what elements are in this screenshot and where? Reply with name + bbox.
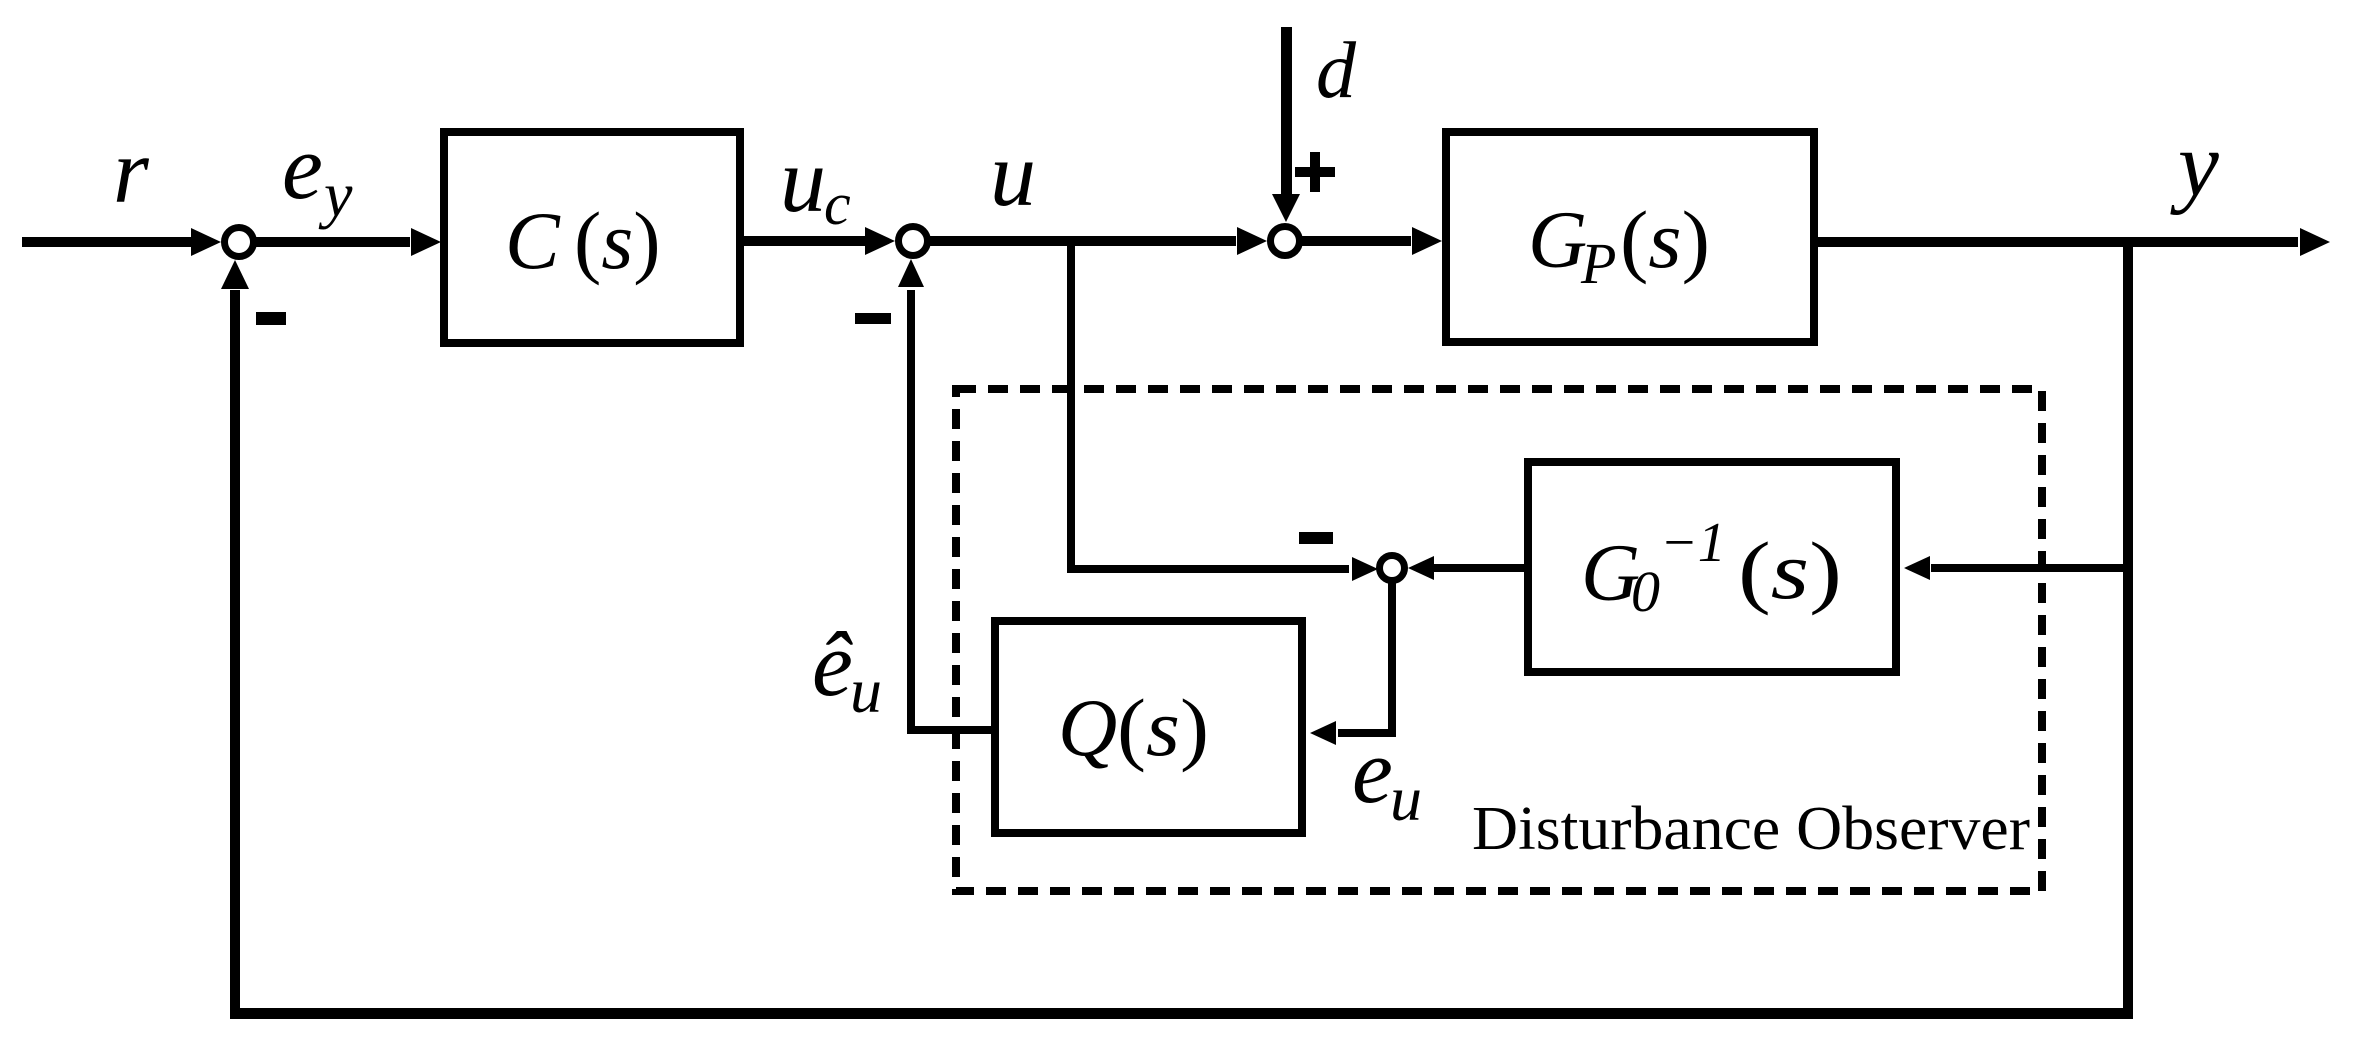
wire: u line J2 to J3 [930,227,1267,255]
svg-text:−1: −1 [1660,512,1726,574]
wire: e_y line J1 to C(s) [255,228,441,256]
block Q(s) [995,621,1302,833]
wire: u branch horizontal to J4 [1067,557,1378,581]
node: summing junction J3 [1271,227,1300,256]
svg-text:d: d [1316,27,1357,115]
svg-text:y: y [318,159,353,230]
wire: u_c line C(s) to J2 [744,227,895,255]
svg-text:c: c [824,171,851,237]
label: minus sign above J4 [1299,532,1333,544]
svg-text:(s): (s) [574,195,661,286]
wire: feedback bottom [230,1008,2133,1019]
svg-text:P: P [1580,231,1616,296]
node: summing junction J2 [899,227,928,256]
svg-text:Q: Q [1058,682,1117,773]
svg-text:(s): (s) [1117,682,1209,773]
wire: output y line [1818,228,2330,256]
svg-text:ê: ê [812,613,853,715]
label: minus sign left of J2 [855,313,891,324]
wire: e_u into Q [1310,721,1396,745]
wire: feedback left vertical up to J1 [221,260,249,1013]
block G0^-1(s) [1528,462,1896,672]
wire: r input line [22,228,221,256]
block C(s) [444,132,740,343]
wire: J4 down [1388,581,1396,737]
block Gp(s) [1446,132,1814,342]
svg-text:C: C [505,195,561,286]
svg-text:Disturbance Observer: Disturbance Observer [1472,795,2030,863]
label: plus sign at J3 [1295,152,1335,192]
svg-text:0: 0 [1631,559,1660,624]
wire: feedback vertical right [2123,242,2133,1013]
wire: e_hat_u vertical up to J2 [898,259,924,734]
svg-text:u: u [1390,763,1422,834]
wire: J3 to Gp [1302,227,1442,255]
svg-text:e: e [1352,720,1393,822]
wire: y feedback into G0 [1904,556,2128,580]
wire: Q output left [913,726,991,734]
svg-text:e: e [282,116,323,218]
node: summing junction J4 [1380,556,1405,581]
svg-text:(s): (s) [1620,194,1710,285]
svg-text:r: r [113,120,150,222]
svg-text:u: u [850,655,882,726]
wire: G0 output to J4 [1408,556,1524,580]
node: summing junction J1 [225,228,254,257]
svg-text:u: u [990,123,1036,225]
svg-text:(s): (s) [1738,525,1842,616]
wire: d disturbance vertical [1272,27,1300,222]
dashed box: Disturbance Observer [956,389,2042,891]
wire: u branch vertical into observer [1067,246,1075,572]
label: minus sign below J1 [256,312,286,325]
svg-text:y: y [2170,113,2219,215]
svg-text:G: G [1528,194,1587,285]
svg-text:u: u [780,129,826,231]
